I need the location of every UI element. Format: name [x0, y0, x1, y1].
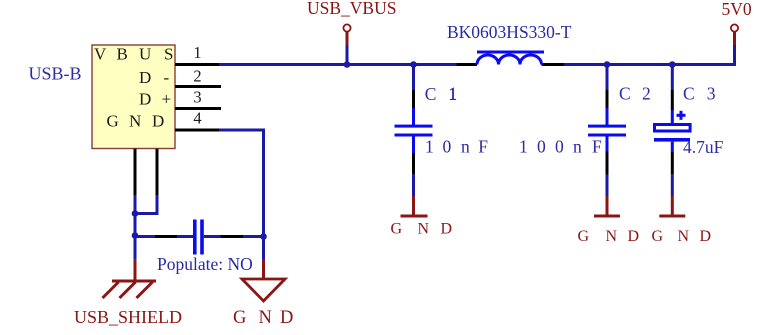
- power port USB_VBUS stub red: [346, 32, 349, 46]
- junction C2: [604, 61, 611, 68]
- pin 6 shield stub right: [156, 149, 159, 195]
- pin populate-cap left black: [155, 235, 177, 238]
- svg-text:4.7uF: 4.7uF: [683, 137, 724, 157]
- power port GND C2 bar: [594, 215, 620, 218]
- power port GND triangle stub: [262, 259, 265, 280]
- pin C3 upper black: [671, 90, 674, 110]
- capacitor C3 bottom plate: [654, 138, 690, 142]
- wire C1 to plate: [412, 108, 415, 125]
- wire shield left vertical: [134, 195, 137, 260]
- power port GND C3 stub: [671, 196, 674, 215]
- capacitor populate plates: [193, 220, 204, 255]
- wire C1 upper: [412, 66, 415, 90]
- wire shield right vertical: [156, 195, 159, 215]
- wire inductor to 5V0 corner: [564, 63, 736, 66]
- wire C1 to gnd: [412, 174, 415, 196]
- wire populate-cap left inner: [177, 235, 193, 238]
- pin 1 stub: [175, 63, 220, 66]
- junction C3: [669, 61, 676, 68]
- svg-text:2: 2: [193, 67, 201, 86]
- capacitor C2 plates: [588, 125, 626, 137]
- wire C3 upper: [671, 66, 674, 90]
- wire populate-cap left: [135, 235, 155, 238]
- svg-text:1: 1: [193, 43, 201, 62]
- svg-text:GND: GND: [107, 112, 165, 131]
- power port GND triangle: [242, 279, 285, 301]
- inductor ferrite bar: [477, 51, 544, 54]
- junction USB_VBUS: [344, 61, 351, 68]
- pin 4 stub: [175, 129, 220, 132]
- wire C1 below plate: [412, 137, 415, 154]
- pin C2 lower black: [606, 152, 609, 175]
- pin 5 shield stub left: [134, 149, 137, 195]
- pin C3 lower black: [671, 152, 674, 174]
- inductor humps: [477, 55, 542, 65]
- wire C3 to plate: [671, 110, 674, 123]
- junction C1: [410, 61, 417, 68]
- inductor pin 2 black: [542, 63, 565, 66]
- wire 5V0 vertical: [733, 45, 736, 66]
- capacitor C1 plates: [395, 125, 433, 137]
- power port 5V0 circle: [731, 24, 738, 31]
- svg-text:Populate: NO: Populate: NO: [157, 254, 253, 274]
- pin C1 lower black: [412, 153, 415, 174]
- wire pin1 to inductor: [219, 63, 457, 66]
- junction shield upper: [132, 210, 139, 217]
- svg-text:C1: C1: [425, 84, 457, 104]
- pin C2 upper black: [606, 90, 609, 108]
- svg-text:C3: C3: [683, 84, 716, 104]
- wire C2 to gnd: [606, 174, 609, 196]
- wire C2 below plate: [606, 137, 609, 152]
- wire C2 upper: [606, 66, 609, 90]
- svg-text:5V0: 5V0: [722, 0, 752, 19]
- wire shield link horizontal: [134, 212, 159, 215]
- power port USB_SHIELD symbol: [103, 281, 157, 298]
- svg-text:USB_VBUS: USB_VBUS: [307, 0, 396, 18]
- junction populate-cap right: [260, 233, 267, 240]
- svg-text:USB-B: USB-B: [29, 64, 82, 84]
- power port USB_VBUS stub blue: [346, 45, 349, 64]
- pin 3 stub: [175, 107, 221, 110]
- power port GND C1 bar: [401, 215, 428, 218]
- svg-text:10nF: 10nF: [425, 137, 488, 157]
- svg-text:GND: GND: [391, 221, 453, 238]
- pin 2 stub: [175, 85, 221, 88]
- svg-text:100nF: 100nF: [519, 137, 602, 157]
- wire pin4 vertical down: [262, 129, 265, 260]
- inductor pin 1 black: [457, 63, 477, 66]
- power port 5V0 stub red: [733, 32, 736, 46]
- capacitor C3 top plate box: [655, 125, 691, 132]
- svg-text:3: 3: [193, 88, 201, 107]
- svg-text:C2: C2: [619, 84, 651, 104]
- power port USB_VBUS circle: [343, 24, 350, 31]
- svg-text:4: 4: [193, 109, 201, 128]
- wire populate-cap right: [243, 235, 264, 238]
- power port GND C2 stub: [606, 196, 609, 215]
- svg-text:GND: GND: [233, 308, 293, 328]
- connector USB-B body: [92, 45, 175, 149]
- pin C1 upper black: [412, 90, 415, 108]
- svg-text:GND: GND: [652, 228, 712, 245]
- svg-text:BK0603HS330-T: BK0603HS330-T: [447, 22, 572, 42]
- pin populate-cap right black: [220, 235, 243, 238]
- wire C3 to gnd: [671, 174, 674, 196]
- power port USB_SHIELD stub: [134, 260, 137, 281]
- capacitor C3 plus sign: [677, 111, 686, 120]
- power port GND C3 bar: [659, 215, 685, 218]
- wire C3 below plate: [671, 142, 674, 152]
- wire pin4 horizontal: [219, 129, 265, 132]
- svg-text:USB_SHIELD: USB_SHIELD: [74, 307, 182, 327]
- power port GND C1 stub: [412, 196, 415, 215]
- wire C2 to plate: [606, 108, 609, 125]
- svg-text:GND: GND: [578, 228, 640, 245]
- wire populate-cap right inner: [204, 235, 221, 238]
- junction shield lower: [132, 232, 139, 239]
